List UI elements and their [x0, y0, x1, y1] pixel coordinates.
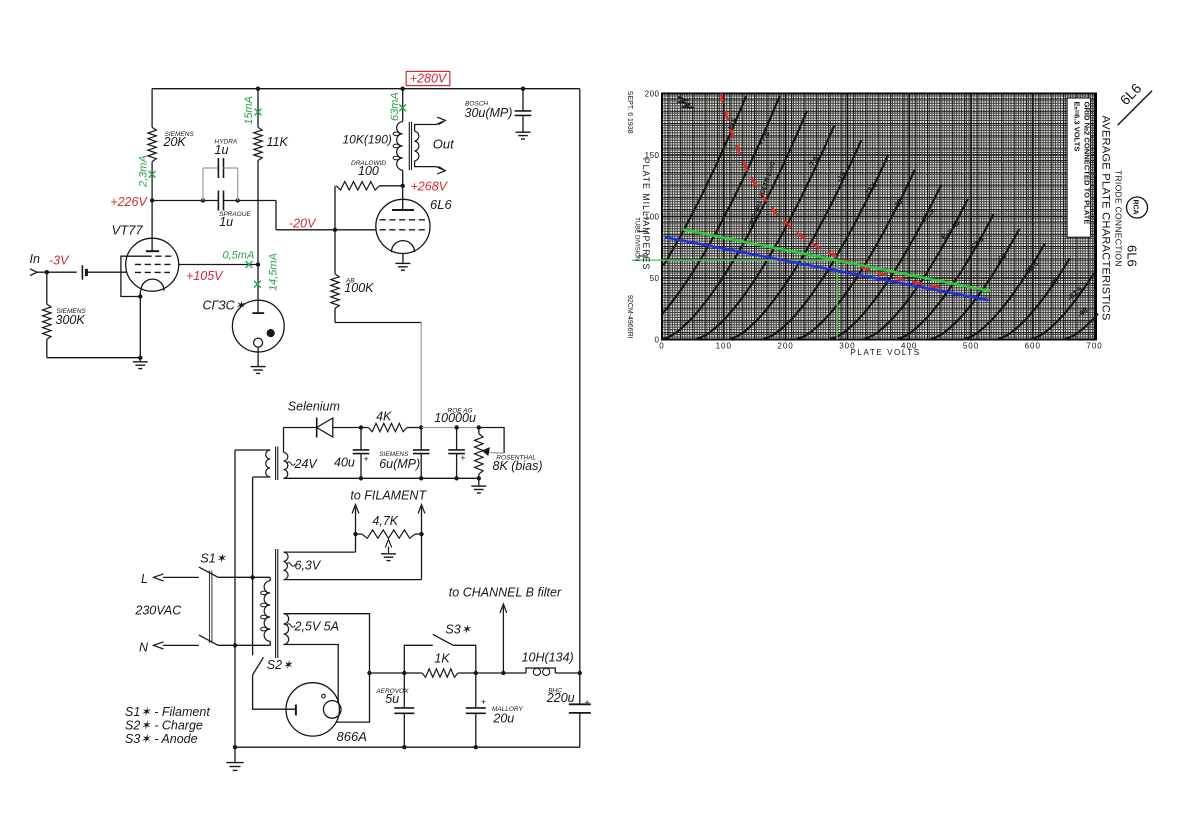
- curve Ec step 10: [930, 229, 1019, 340]
- tube VT77 plate lead: [151, 201, 153, 252]
- svg-text:AVERAGE PLATE CHARACTERISTIC: AVERAGE PLATE CHARACTERISTICS: [1100, 116, 1112, 321]
- tube SG3S anode bar: [252, 312, 264, 314]
- chart margin dashes: [638, 231, 648, 233]
- svg-text:20K: 20K: [163, 135, 187, 149]
- svg-text:S1✶: S1✶: [200, 552, 227, 566]
- resistor R 1K: [422, 669, 458, 677]
- tube 6L6 plate lead: [402, 186, 404, 210]
- transformer T2 mains primary winding: [264, 581, 270, 641]
- svg-text:200: 200: [645, 90, 660, 99]
- svg-text:8K (bias): 8K (bias): [493, 459, 543, 473]
- chart green load line: [683, 230, 990, 292]
- svg-text:+: +: [481, 697, 486, 707]
- capacitor C AEROVOX 5u: [403, 673, 405, 708]
- chart grid background: [662, 94, 1096, 340]
- wire S1 to primary bottom: [218, 644, 270, 646]
- svg-text:14,5mA: 14,5mA: [268, 253, 280, 291]
- potentiometer R 4,7K: [362, 530, 415, 538]
- node VT77 anode junction: [256, 262, 260, 266]
- tube VT77 grid g3 dashes: [146, 255, 174, 257]
- node ground rail at riser A: [233, 745, 237, 749]
- ground 6L6 cathode: [395, 262, 410, 264]
- svg-text:S2✶ - Charge: S2✶ - Charge: [125, 719, 203, 733]
- current mark X 0,5mA: [246, 261, 253, 268]
- tube 6L6 envelope: [376, 199, 430, 253]
- svg-text:4K: 4K: [376, 410, 392, 424]
- tube SG3S cathode lead: [257, 347, 259, 367]
- wire Out top lead + arrow: [415, 121, 444, 131]
- wire bottom ground rail: [235, 746, 580, 748]
- input arrow chevron: [30, 269, 37, 276]
- svg-text:In: In: [30, 252, 40, 266]
- resistor R 4K: [368, 423, 407, 431]
- node -20V / feedback junction: [333, 228, 337, 232]
- svg-text:100K: 100K: [344, 281, 374, 295]
- node riser B joins L wire: [250, 575, 254, 579]
- chart Ef box: [1067, 98, 1091, 237]
- svg-text:to CHANNEL B filter: to CHANNEL B filter: [449, 586, 562, 600]
- battery -3V bias cell: [81, 265, 83, 279]
- wire grid return rail: [47, 357, 141, 359]
- curve Ec step 4: [729, 140, 861, 339]
- svg-text:6L6: 6L6: [430, 197, 452, 212]
- resistor R 20K SIEMENS: [151, 89, 153, 128]
- node 40u bottom: [359, 476, 363, 480]
- wire top B+ rail +280V: [152, 88, 580, 90]
- curve Ec step 14: [1064, 314, 1098, 340]
- curve Ec step 8: [863, 199, 968, 339]
- svg-text:230VAC: 230VAC: [134, 604, 182, 618]
- tube VT77 grid g2 dashes: [135, 263, 174, 265]
- wire right edge upper (B+ down to 220u): [579, 89, 581, 705]
- node input: [45, 270, 49, 274]
- wire 2.5V top lead to filter: [284, 614, 370, 722]
- svg-text:200: 200: [777, 342, 793, 351]
- svg-text:2,3mA: 2,3mA: [138, 155, 150, 188]
- svg-text:10K(190): 10K(190): [343, 133, 392, 147]
- wire bias primary top lead: [235, 449, 270, 451]
- node 10000u top: [454, 425, 458, 429]
- wire bias gray link: [421, 427, 479, 429]
- svg-text:5u: 5u: [385, 692, 399, 706]
- tube VT77 cathode lead: [139, 291, 141, 297]
- tube VT77 cathode dome: [141, 279, 164, 291]
- svg-text:30u(MP): 30u(MP): [465, 106, 513, 120]
- curve Ec step 3: [696, 126, 835, 340]
- svg-text:1u: 1u: [219, 215, 233, 229]
- transformer T2 winding 24V: [284, 452, 288, 478]
- chart pale green operating lines: [632, 259, 837, 261]
- switch S2: [252, 577, 254, 655]
- wire selenium AC line: [284, 427, 317, 429]
- wire bias feed vertical (gray): [420, 323, 422, 428]
- curve Ec step 12: [997, 258, 1070, 339]
- curve Ec step 1: [662, 96, 779, 314]
- current mark X 14,5mA: [254, 281, 261, 288]
- ground 30u: [516, 131, 531, 133]
- transformer T1 output primary 10K(190): [402, 89, 404, 122]
- node top rail at 30u: [521, 87, 525, 91]
- node 40u top: [359, 425, 363, 429]
- chart scan smudge top left: [678, 97, 694, 108]
- wire S1 to primary: [218, 576, 270, 578]
- wire mains primary bottom lead: [269, 641, 271, 645]
- tube 866A anode circle: [323, 701, 341, 719]
- node 5u bottom: [402, 745, 406, 749]
- svg-text:0: 0: [655, 336, 660, 345]
- svg-text:600: 600: [1025, 342, 1041, 351]
- node bias feed: [419, 425, 423, 429]
- wire -20V to 6L6 grid: [335, 229, 376, 231]
- wire filter line 3: [555, 672, 580, 674]
- tube VT77 grid g1 dashes: [135, 271, 170, 273]
- svg-text:S3✶ - Anode: S3✶ - Anode: [125, 732, 198, 746]
- node top rail at 11K: [256, 87, 260, 91]
- chart major gridlines: [662, 94, 1096, 340]
- resistor R AB 100K: [334, 230, 336, 274]
- svg-text:-20V: -20V: [289, 216, 317, 230]
- wire S2 to 866A filament: [253, 675, 296, 709]
- capacitor C BHC 220u: [569, 703, 591, 705]
- tube SG3S cathode circle: [254, 338, 263, 347]
- node channel B tap: [501, 671, 505, 675]
- svg-text:92CM-4966RI: 92CM-4966RI: [626, 295, 633, 339]
- chart red dashed dissipation hyperbola: [721, 94, 940, 288]
- svg-text:to FILAMENT: to FILAMENT: [350, 489, 427, 503]
- svg-text:+105V: +105V: [186, 269, 224, 283]
- svg-text:500: 500: [963, 342, 979, 351]
- svg-text:TUBE DIVISION: TUBE DIVISION: [634, 217, 640, 261]
- capacitor C SPRAGUE 1u: [217, 191, 219, 211]
- ground mains/chassis: [234, 747, 236, 762]
- curve Ec step 0: [663, 96, 746, 266]
- node rectifier output: [367, 671, 371, 675]
- svg-text:S3✶: S3✶: [445, 623, 472, 637]
- svg-text:50: 50: [650, 274, 660, 283]
- tube 866A tip: [322, 694, 326, 698]
- node VT77 cathode: [138, 294, 142, 298]
- svg-text:L: L: [141, 572, 148, 586]
- node +268V: [401, 184, 405, 188]
- capacitor C ROE AG 10000u: [456, 428, 458, 450]
- curve Ec step 13: [1031, 273, 1095, 339]
- curve Ec step 11: [964, 244, 1045, 340]
- node +226V: [150, 198, 154, 202]
- transformer T1 secondary: [415, 131, 419, 161]
- svg-text:PLATE VOLTS: PLATE VOLTS: [851, 348, 921, 357]
- wire 8K wiper feed: [479, 428, 504, 454]
- svg-text:+: +: [585, 698, 590, 708]
- inductor L 10H(134) BHC: [526, 668, 555, 673]
- transformer T2 core upper: [275, 447, 277, 481]
- svg-text:15mA: 15mA: [243, 96, 255, 125]
- svg-text:63mA: 63mA: [389, 92, 401, 121]
- transformer T2 winding 6.3V: [284, 552, 289, 580]
- ground SG3S: [251, 366, 266, 368]
- switch S1 blade lower: [199, 635, 218, 645]
- wire VT77 anode to 11K node: [179, 264, 258, 266]
- wire -20V drop: [275, 201, 277, 230]
- tube VT77 plate bar: [146, 250, 159, 252]
- svg-text:Selenium: Selenium: [288, 400, 340, 414]
- wire Sprague to corner: [224, 200, 277, 202]
- node 8K top: [477, 425, 481, 429]
- curve Ec step 6: [796, 170, 915, 340]
- wire bias bottom rail: [284, 477, 479, 479]
- svg-text:S2✶: S2✶: [267, 658, 294, 672]
- tube 866A filament bar: [295, 705, 297, 716]
- svg-text:RCA: RCA: [1132, 200, 1139, 215]
- resistor R DRALOWID 100 feedback: [334, 186, 336, 230]
- svg-text:4,7K: 4,7K: [372, 514, 398, 528]
- svg-text:0: 0: [659, 342, 664, 351]
- svg-text:0,5mA: 0,5mA: [223, 250, 255, 262]
- tube VT77 g3-cathode tie box: [121, 256, 146, 296]
- wire 24V top lead: [283, 428, 285, 453]
- svg-text:300K: 300K: [56, 313, 86, 327]
- node grid return at cathode: [138, 356, 142, 360]
- node hydra right: [236, 198, 240, 202]
- resistor R 300K SIEMENS: [46, 272, 48, 304]
- node 8K bottom: [477, 476, 481, 480]
- wire Out bottom lead + arrow: [415, 161, 444, 170]
- resistor R 11K: [257, 89, 259, 128]
- arrow to FILAMENT right: [421, 507, 423, 534]
- tube 6L6 plate bar: [392, 209, 414, 211]
- wire left riser A: [234, 450, 236, 747]
- transformer T2 bias primary winding: [266, 450, 271, 477]
- current mark X 63mA: [399, 104, 406, 111]
- wire -20V horizontal: [276, 229, 335, 231]
- svg-text:700: 700: [1086, 342, 1102, 351]
- curve Ec step 2: [662, 111, 807, 340]
- svg-text:1K: 1K: [434, 651, 450, 665]
- node riser A joins N wire: [233, 643, 237, 647]
- wire battery to VT77 grid: [86, 271, 126, 273]
- tube VT77 envelope: [126, 238, 179, 291]
- node top rail at output transformer: [401, 87, 405, 91]
- svg-text:220u: 220u: [546, 691, 575, 705]
- current mark X 2,3mA: [149, 171, 156, 178]
- svg-text:+226V: +226V: [110, 195, 148, 209]
- capacitor C BOSCH 30u(MP): [522, 89, 524, 111]
- tube 866A envelope: [286, 683, 339, 736]
- svg-text:100: 100: [716, 342, 732, 351]
- node 20u bottom: [474, 745, 478, 749]
- potentiometer R ROSENTHAL 8K bias: [478, 428, 480, 434]
- curve Ec step 5: [763, 155, 889, 340]
- svg-text:100: 100: [358, 164, 379, 178]
- wire bias primary bottom lead: [253, 476, 271, 478]
- wire mains primary top lead: [269, 577, 271, 580]
- arrow to CHANNEL B filter: [502, 607, 504, 674]
- label +280V red box: [406, 71, 450, 85]
- transformer T2 winding 2.5V: [284, 614, 289, 645]
- wire 4,7K right leg: [421, 534, 423, 580]
- svg-text:+: +: [460, 453, 465, 463]
- arrow to FILAMENT left: [355, 507, 357, 534]
- wire selenium to 40u node: [333, 427, 369, 429]
- transformer T1 core: [408, 122, 410, 170]
- wire filter line 2: [458, 672, 526, 674]
- svg-text:20u: 20u: [492, 712, 514, 726]
- svg-text:СГЗС✶: СГЗС✶: [203, 299, 247, 313]
- svg-text:Eₙ=6.3 VOLTS: Eₙ=6.3 VOLTS: [1073, 102, 1082, 152]
- wiper 4,7K to ground: [388, 547, 390, 554]
- capacitor C HYDRA 1u bypass bridge (gray): [202, 168, 204, 201]
- wire right edge lower (220u to ground rail): [579, 713, 581, 747]
- svg-text:2,5V 5A: 2,5V 5A: [294, 620, 339, 634]
- wire 100K to bias feed: [335, 322, 421, 324]
- switch S3 bypass: [404, 645, 433, 673]
- wire 4K to node: [407, 427, 421, 429]
- wire filter line 1: [370, 672, 423, 674]
- wire left riser B: [252, 478, 254, 577]
- capacitor C 40u: [360, 428, 362, 450]
- chart RCA logo: [1127, 197, 1148, 218]
- node 6u bottom: [419, 476, 423, 480]
- curve Ec step 9: [897, 214, 994, 340]
- wire cathode down: [139, 297, 141, 358]
- chart plot frame: [662, 94, 1096, 340]
- wire 4,7K left leg: [355, 534, 357, 552]
- node 4,7K right: [419, 532, 423, 536]
- svg-text:10000u: 10000u: [434, 411, 476, 425]
- wire input: [37, 271, 77, 273]
- svg-text:VT77: VT77: [112, 223, 144, 238]
- svg-text:SEPT. 6 1938: SEPT. 6 1938: [626, 91, 633, 134]
- node hydra left: [201, 198, 205, 202]
- curve Ec step 7: [830, 185, 942, 340]
- chart blue load line: [665, 237, 989, 300]
- svg-text:1u: 1u: [215, 143, 229, 157]
- node 10000u bottom: [454, 476, 458, 480]
- svg-text:-3V: -3V: [49, 253, 70, 267]
- wire L with arrow: [163, 576, 199, 578]
- switch S1 blade upper: [199, 567, 218, 577]
- svg-text:10H(134): 10H(134): [522, 651, 574, 665]
- diode D Selenium: [317, 418, 333, 437]
- svg-text:6u(MP): 6u(MP): [379, 457, 420, 471]
- wire 11K node down to SG3S: [257, 265, 259, 314]
- svg-text:24V: 24V: [294, 457, 319, 471]
- svg-text:S1✶ - Filament: S1✶ - Filament: [125, 705, 210, 719]
- wire 2.5V bottom lead to anode: [284, 645, 339, 703]
- svg-text:6L6: 6L6: [1125, 245, 1140, 267]
- svg-text:6,3V: 6,3V: [295, 559, 322, 573]
- svg-text:PLATE MILLIAMPERES: PLATE MILLIAMPERES: [641, 158, 651, 271]
- wire 6.3V top lead: [284, 551, 356, 553]
- tube 6L6 cathode dome: [391, 241, 414, 253]
- ground 8K bias: [478, 478, 480, 486]
- svg-text:+268V: +268V: [411, 180, 449, 194]
- svg-text:GRID №2 CONNECTED TO PLATE: GRID №2 CONNECTED TO PLATE: [1083, 102, 1092, 225]
- tube SG3S dot electrode: [267, 329, 275, 337]
- switch S1 linkage: [208, 571, 210, 644]
- transformer T2 core lower: [275, 549, 277, 658]
- svg-text:+: +: [364, 454, 369, 464]
- capacitor C SIEMENS 6u(MP): [420, 428, 422, 450]
- svg-text:866A: 866A: [337, 729, 367, 744]
- tube 6L6 cathode lead: [402, 254, 404, 264]
- node 5u: [402, 671, 406, 675]
- capacitor C MALLORY 20u: [475, 673, 477, 708]
- svg-text:+280V: +280V: [410, 72, 448, 86]
- wire N with arrow: [163, 644, 199, 646]
- ground VT77 cathode: [139, 358, 141, 362]
- wire 6.3V bottom lead: [284, 579, 422, 581]
- node 4,7K left: [353, 532, 357, 536]
- node 20u: [474, 671, 478, 675]
- svg-text:40u: 40u: [334, 456, 355, 470]
- tube SG3S (CG3C) envelope: [232, 300, 284, 352]
- svg-text:N: N: [139, 641, 149, 655]
- current mark X 15mA: [255, 109, 262, 116]
- wire +226V to Sprague cap: [152, 200, 218, 202]
- node choke out: [578, 671, 582, 675]
- svg-text:Out: Out: [433, 136, 455, 151]
- svg-text:11K: 11K: [267, 135, 289, 149]
- tube 6L6 grid g1 dashes: [380, 229, 427, 231]
- ground 4,7K wiper: [381, 553, 396, 555]
- svg-text:TRIODE CONNECTION: TRIODE CONNECTION: [1114, 170, 1124, 267]
- tube 6L6 grid g2 dashes: [380, 219, 427, 221]
